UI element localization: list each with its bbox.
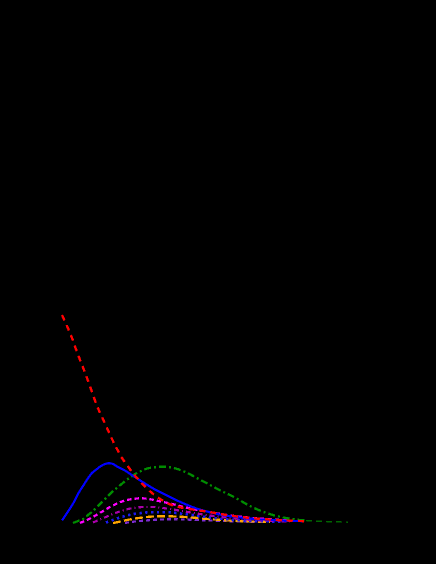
curve n=6 (blue dotted) (106, 512, 283, 522)
curve n=3 (green dash-dot) (73, 467, 306, 523)
curve n=7 (orange dashed) (113, 516, 270, 523)
curve n=2 (blue solid) (62, 463, 302, 521)
curve n=3 faint tail (306, 521, 348, 523)
curve n=4 (magenta dashed) (80, 498, 302, 523)
curve n=1 (red dashed) (62, 315, 308, 521)
curve n=5 (violet dash-dot) (93, 507, 290, 523)
curve n=8 (purple dashed) (125, 519, 260, 523)
